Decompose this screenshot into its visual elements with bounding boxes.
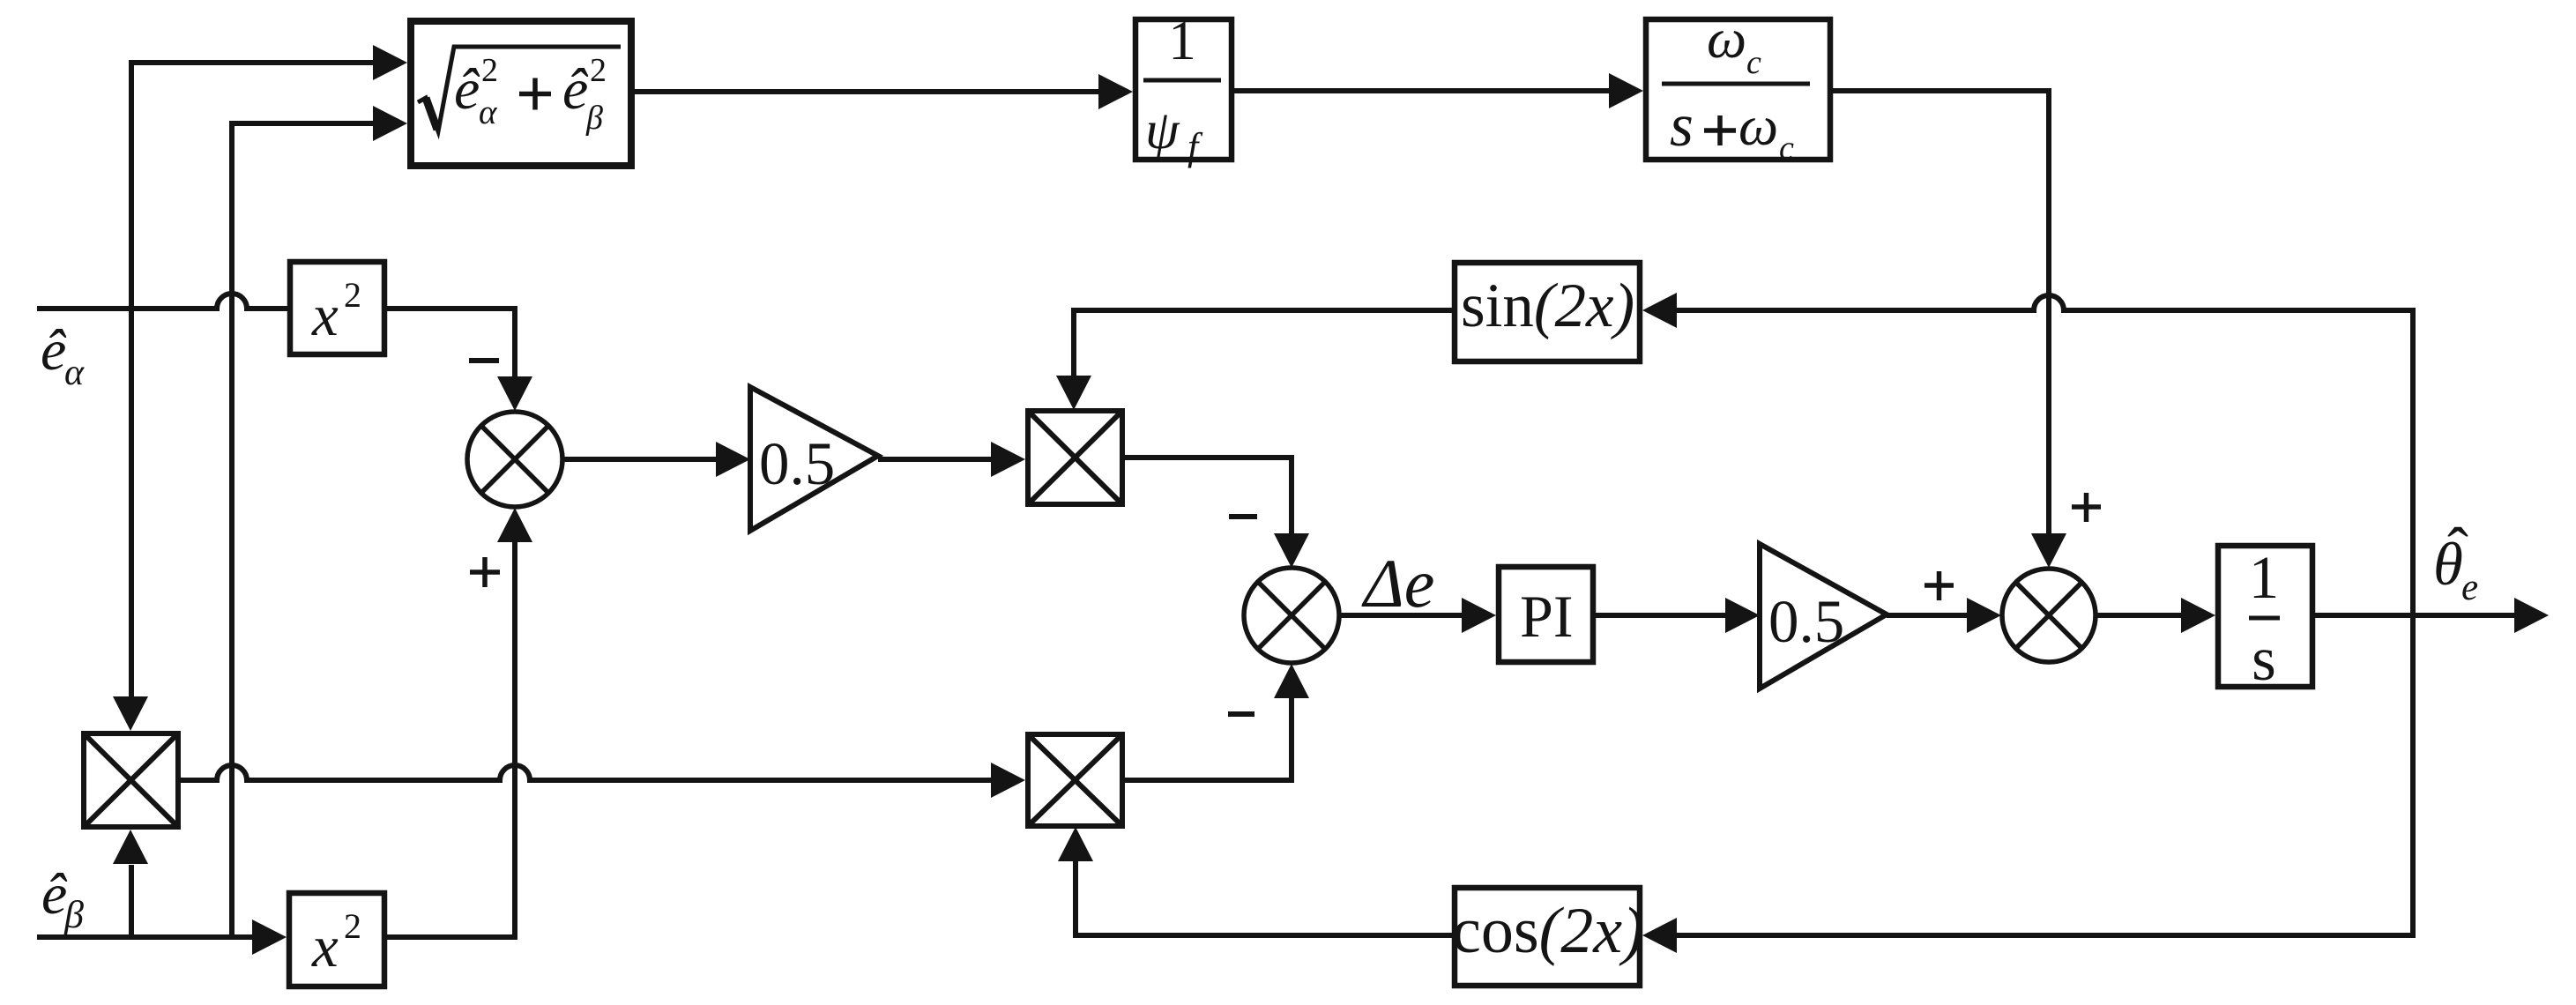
block x2 top [290, 262, 384, 354]
gain G1 triangle [750, 387, 878, 531]
arrowhead into PI block [1462, 598, 1496, 633]
svg-text:ω: ω [1707, 7, 1746, 70]
svg-text:s: s [2252, 625, 2276, 694]
svg-text:β: β [63, 893, 84, 936]
label delta-e [1361, 545, 1434, 622]
wire 1/psi_f output to filter block [1232, 88, 1611, 93]
sign plus at summer S1 bottom [470, 557, 500, 587]
block PI controller [1499, 567, 1593, 662]
svg-text:2: 2 [344, 275, 361, 315]
x2 bottom block label [311, 906, 361, 979]
arrowhead into 1/psi_f [1098, 74, 1133, 109]
wire PI output to gain G2 [1593, 613, 1726, 618]
label e_alpha input [41, 318, 85, 393]
arrowhead into summer S1 top [497, 376, 532, 411]
block x2 bottom [289, 893, 384, 986]
svg-text:c: c [1779, 130, 1794, 167]
wire summer S3 output to integrator [2096, 613, 2183, 618]
wire e_alpha branch down to multiplier M1 top [129, 309, 134, 697]
svg-text:Δe: Δe [1361, 545, 1434, 622]
sign plus at summer S3 top [2072, 493, 2101, 522]
sign minus at summer S2 bottom [1228, 711, 1254, 717]
svg-text:2: 2 [344, 906, 361, 946]
block 1/psi_f [1135, 19, 1232, 160]
svg-text:0.5: 0.5 [1768, 588, 1844, 655]
wire feedback down to cos block [1675, 615, 2413, 935]
block low-pass filter wc/(s+wc) [1646, 19, 1830, 160]
arrowhead into gain G1 [716, 442, 750, 477]
svg-text:0.5: 0.5 [759, 430, 835, 497]
block sin(2x) [1455, 263, 1640, 361]
sign minus at summer S1 top [469, 358, 499, 363]
arrowhead into filter block [1609, 73, 1643, 108]
wire filter output down to summer S3 top [1830, 91, 2049, 533]
svg-text:2: 2 [590, 52, 607, 89]
wire x2 bottom output to summer S1 bottom [384, 540, 515, 937]
svg-text:ê: ê [454, 57, 480, 122]
wire cos output to multiplier M3 bottom [1076, 861, 1455, 935]
x2 top block label [311, 275, 361, 348]
svg-text:1: 1 [1168, 10, 1196, 71]
svg-text:sin(2x): sin(2x) [1461, 272, 1634, 340]
arrowhead into multiplier M1 bottom [113, 830, 148, 864]
1/psi_f fraction bar [1143, 78, 1221, 83]
label theta_e output [2433, 515, 2478, 608]
svg-text:PI: PI [1520, 583, 1573, 650]
wire summer S2 output to PI block [1339, 613, 1463, 618]
arrowhead into summer S3 left [1967, 598, 2001, 633]
wire integrator output to theta_e arrow [2312, 613, 2515, 618]
summer S3 circle with cross [2002, 569, 2096, 662]
label e_beta input [41, 862, 84, 936]
integrator fraction bar [2249, 616, 2280, 621]
1/psi_f block text [1145, 10, 1203, 168]
wire e_alpha input horizontal with hop over e_beta vertical [37, 294, 290, 309]
arrowhead into sqrt input 2 [373, 106, 407, 141]
integrator block text 1/s [2249, 544, 2280, 694]
arrowhead into sqrt input 1 [373, 45, 407, 80]
filter block plus sign [1704, 115, 1736, 145]
multiplier M3 crossed box [1028, 734, 1122, 826]
arrowhead into multiplier M3 left [991, 763, 1025, 798]
svg-text:c: c [1746, 44, 1761, 81]
sqrt block formula text [454, 52, 607, 137]
svg-text:x: x [311, 914, 339, 979]
svg-text:β: β [585, 100, 603, 137]
wire sqrt output to 1/psi_f block [632, 89, 1100, 94]
multiplier M2 crossed box [1028, 411, 1122, 504]
svg-text:e: e [2461, 567, 2478, 608]
block integrator 1/s [2218, 546, 2312, 687]
block sqrt magnitude [411, 21, 631, 166]
svg-text:ψ: ψ [1145, 100, 1180, 160]
arrowhead into sin block right [1642, 293, 1677, 328]
multiplier M1 crossed box [84, 733, 178, 827]
wire summer S1 output to gain G1 [562, 457, 717, 462]
svg-text:2: 2 [481, 52, 498, 89]
filter block text wc/(s+wc) [1670, 7, 1794, 167]
arrowhead into summer S2 top [1274, 533, 1309, 568]
arrowhead into summer S2 bottom [1274, 664, 1309, 698]
wire e_beta branch up to sqrt input 2 [232, 123, 375, 937]
wire x2 top output to summer S1 top [384, 309, 515, 376]
arrowhead into multiplier M2 left [991, 442, 1025, 477]
svg-text:1: 1 [2249, 544, 2280, 611]
wire e_beta input horizontal [37, 934, 255, 940]
svg-text:ê: ê [562, 57, 589, 122]
arrowhead into multiplier M1 top [113, 696, 148, 731]
svg-text:ê: ê [41, 318, 67, 383]
arrowhead into summer S3 top [2031, 533, 2066, 568]
summer S1 circle with cross [467, 412, 562, 507]
gain G2 triangle [1760, 544, 1887, 689]
sign minus at summer S2 top [1229, 514, 1257, 519]
arrowhead into multiplier M2 top [1056, 376, 1091, 410]
filter block fraction bar [1662, 82, 1810, 86]
block cos(2x) [1455, 888, 1640, 986]
arrowhead into cos block right [1642, 918, 1677, 953]
arrowhead output theta_e [2514, 598, 2549, 633]
svg-text:cos(2x): cos(2x) [1452, 895, 1644, 967]
wire feedback up to sin block with hop [1675, 295, 2413, 615]
arrowhead into integrator [2181, 598, 2215, 633]
wire e_alpha branch up to sqrt input 1 [131, 63, 375, 309]
wire sin block output to multiplier M2 top [1074, 310, 1455, 376]
svg-text:α: α [64, 353, 85, 393]
arrowhead into gain G2 [1725, 598, 1760, 633]
arrowhead into summer S1 bottom [497, 508, 532, 542]
sqrt block radical sign [418, 47, 621, 131]
svg-text:α: α [479, 93, 498, 131]
summer S2 circle with cross [1244, 568, 1339, 663]
wire gain G1 output to multiplier M2 [878, 457, 993, 462]
sqrt block plus sign [519, 78, 551, 110]
sign plus at summer S3 left [1925, 571, 1954, 600]
wire multiplier M2 output to summer S2 top [1122, 458, 1292, 533]
wire multiplier M3 output to summer S2 bottom [1122, 698, 1292, 780]
arrowhead into x2 bottom block [252, 919, 287, 955]
wire multiplier M1 output to multiplier M3 with hops [179, 765, 993, 780]
arrowhead into multiplier M3 bottom [1058, 827, 1093, 861]
svg-text:x: x [311, 283, 339, 348]
svg-text:ω: ω [1738, 94, 1778, 157]
svg-text:s: s [1670, 92, 1694, 159]
wire e_beta branch up into multiplier M1 bottom [129, 865, 134, 937]
wire gain G2 output to summer S3 [1887, 613, 1967, 618]
